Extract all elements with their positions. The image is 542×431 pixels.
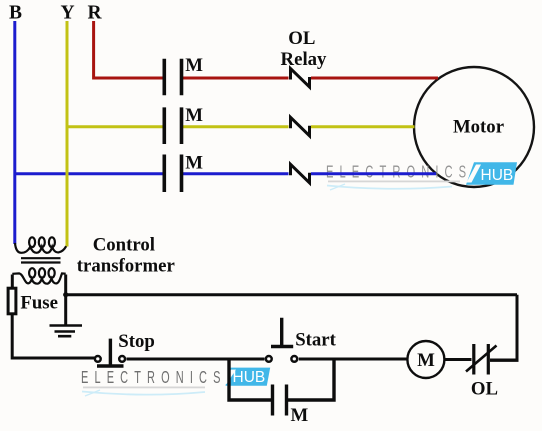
svg-text:Y: Y [60, 3, 74, 24]
wire phase B OL to motor [311, 172, 436, 175]
holding contact branch right wire [287, 359, 334, 400]
svg-text:B: B [9, 3, 22, 24]
svg-text:transformer: transformer [77, 255, 175, 276]
svg-text:M: M [417, 350, 435, 371]
motor M1 [414, 67, 534, 187]
auxiliary contact M [273, 385, 309, 427]
svg-text:Motor: Motor [453, 116, 504, 137]
svg-text:ELECTRONICS: ELECTRONICS [81, 368, 227, 387]
svg-text:OL: OL [288, 28, 315, 49]
contactor contact M (Y phase) [164, 105, 203, 144]
wire secondary right to junction [64, 275, 67, 295]
svg-text:M: M [185, 105, 203, 126]
watermark bottom ELECTRONICS HUB [81, 368, 270, 396]
wire control top rail [66, 293, 517, 296]
svg-text:HUB: HUB [233, 369, 266, 386]
wire start to coil M [299, 358, 408, 361]
contactor contact M (R phase) [164, 55, 203, 95]
svg-text:M: M [291, 405, 309, 426]
control transformer primary coil [15, 243, 66, 253]
svg-text:ELECTRONICS: ELECTRONICS [326, 162, 472, 182]
svg-text:Control: Control [93, 235, 155, 256]
wire phase B horizontal to contact [15, 172, 163, 175]
wire phase Y OL to motor [311, 125, 415, 128]
svg-text:R: R [87, 3, 102, 24]
wire phase Y contact to OL [183, 125, 289, 128]
OL heater element (B phase) [291, 164, 310, 183]
coil M [407, 341, 444, 378]
wire phase R contact to OL [183, 77, 289, 80]
wire stop to start [127, 358, 265, 361]
wire secondary left to fuse [11, 275, 14, 289]
wire coil to OL contact [444, 358, 471, 361]
OL contact (NC with slash) [466, 344, 498, 399]
wire phase Y horizontal to contact [67, 125, 163, 128]
svg-text:Relay: Relay [281, 49, 328, 70]
svg-text:Start: Start [295, 329, 336, 350]
svg-text:M: M [185, 55, 203, 76]
control transformer core [21, 258, 61, 262]
wire right side down [516, 295, 519, 361]
node junction at transformer output [63, 292, 68, 297]
pushbutton Stop (NC) [95, 331, 155, 366]
watermark top ELECTRONICS HUB [326, 162, 517, 190]
svg-text:M: M [185, 153, 203, 174]
svg-text:Stop: Stop [118, 331, 155, 352]
svg-text:HUB: HUB [481, 167, 514, 184]
wire junction to ground [64, 295, 67, 325]
svg-text:OL: OL [471, 378, 498, 399]
OL heater element (R phase) [291, 69, 310, 88]
control transformer secondary coil [12, 273, 65, 283]
wire phase B vertical [13, 21, 16, 244]
wire phase R OL to motor [311, 77, 438, 80]
ground [50, 326, 83, 337]
wire phase Y vertical [66, 21, 69, 247]
OL heater element (Y phase) [291, 117, 310, 136]
wire phase B contact to OL [183, 172, 289, 175]
wire phase R vertical with corner [94, 21, 163, 78]
holding contact branch left wire [229, 359, 272, 400]
wire fuse to bottom rail [12, 314, 94, 358]
wire OL to right corner [490, 359, 519, 362]
fuse F1 [8, 288, 16, 314]
pushbutton Start (NO) [266, 318, 337, 362]
svg-text:Fuse: Fuse [20, 293, 58, 314]
contactor contact M (B phase) [164, 153, 203, 192]
